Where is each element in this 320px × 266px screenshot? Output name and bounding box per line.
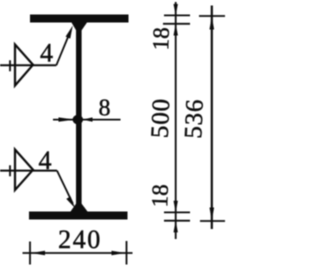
svg-text:8: 8 <box>99 96 111 122</box>
svg-text:18: 18 <box>148 27 174 51</box>
svg-text:500: 500 <box>147 98 176 139</box>
svg-text:18: 18 <box>147 184 173 208</box>
svg-text:4: 4 <box>39 146 52 175</box>
svg-text:536: 536 <box>180 98 209 139</box>
svg-text:4: 4 <box>40 39 53 68</box>
svg-text:240: 240 <box>58 225 102 254</box>
